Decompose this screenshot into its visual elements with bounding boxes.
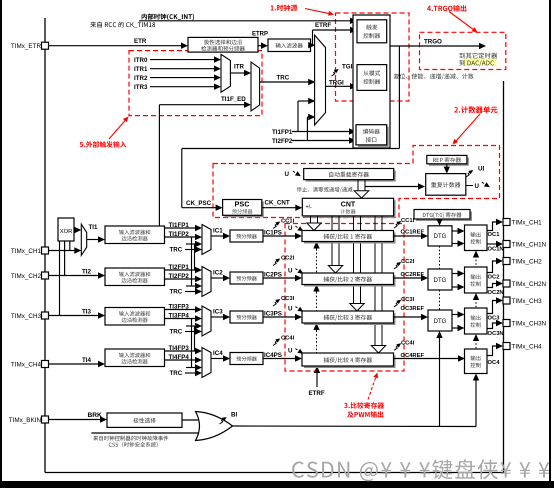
svg-text:TI1FP1: TI1FP1 (272, 129, 293, 136)
wires DTG2 to output control (452, 273, 459, 275)
controller outer box (353, 15, 390, 148)
diagram bottom border (45, 472, 504, 474)
svg-text:TRC: TRC (170, 289, 183, 296)
wire OC2N (487, 284, 498, 288)
input filter and edge detector box CH4 (105, 349, 165, 367)
DTG chain link 2-3 (439, 290, 441, 310)
output U of repetition counter (466, 185, 473, 187)
pin TIMx_CH1N (output) (503, 241, 510, 248)
wire ITR1 (150, 68, 216, 70)
svg-text:DTG: DTG (434, 278, 447, 284)
encoder interface box (358, 127, 389, 147)
input prescaler box CH2 (230, 272, 263, 284)
watermark CSDN (292, 459, 549, 481)
clock-source dashed box (region 1) (336, 13, 410, 101)
pin TIMx_CH3 (output) (503, 297, 510, 304)
svg-text:U: U (288, 348, 293, 355)
wire XOR to TI1 mux (74, 229, 76, 231)
wire OC3N (487, 323, 498, 329)
wire OC3 (487, 301, 498, 314)
svg-text:OC4: OC4 (488, 360, 501, 366)
svg-text:U: U (288, 268, 293, 275)
hollow arrow CNT to CCR4 (374, 216, 376, 346)
XOR input from CH3 (59, 241, 61, 316)
svg-text:TIMx_CH2: TIMx_CH2 (512, 259, 543, 266)
wire CSS fault (91, 432, 203, 434)
svg-text:U: U (285, 171, 290, 178)
svg-text:IC3: IC3 (213, 309, 223, 316)
label to other timers (459, 53, 497, 59)
wire TI1FP2 to IC2 mux (191, 237, 193, 286)
svg-text:CC1I: CC1I (281, 219, 295, 225)
svg-text:ITR2: ITR2 (134, 75, 148, 82)
slave mode controller box (357, 65, 387, 91)
pin TIMx_CH2N (output) (503, 280, 510, 287)
event arrow TGI (332, 70, 338, 76)
svg-text:CC4I: CC4I (401, 340, 415, 346)
preload link OC1-OC2 (475, 255, 477, 257)
input prescaler box CH1 (230, 230, 263, 242)
svg-text:CC3I: CC3I (281, 296, 295, 302)
trigger controller box (357, 20, 387, 43)
event arrow UI (466, 171, 472, 177)
svg-text:TRC: TRC (277, 75, 290, 82)
svg-text:ITR3: ITR3 (134, 84, 148, 91)
arrow REP to repetition counter (446, 164, 448, 168)
label to DAC/ADC (459, 60, 494, 66)
left bus (44, 18, 46, 473)
wire ITR2 (150, 77, 216, 79)
svg-text:ITR1: ITR1 (134, 66, 148, 73)
svg-text:BI: BI (231, 412, 237, 419)
svg-text:ETRF: ETRF (309, 390, 325, 397)
auto-reload register box (306, 171, 396, 182)
polarity select box (BRK) (107, 413, 182, 427)
external trigger dashed box (region 5) (129, 51, 262, 116)
svg-text:ETRP: ETRP (252, 32, 268, 38)
label CSS clock security system (109, 442, 158, 447)
label from RCC CK_TIM18 (90, 22, 155, 28)
preload link CCR1-CCR2 (316, 247, 318, 249)
svg-text:OC2: OC2 (488, 275, 500, 281)
svg-text:OC2N: OC2N (488, 290, 504, 296)
preload link CCR3-CCR4 (316, 329, 318, 331)
REP register box (429, 157, 469, 165)
XOR input from CH2 (64, 241, 66, 276)
mux TRGI select (315, 35, 326, 125)
svg-text:TGI: TGI (342, 64, 353, 71)
mux ITR select (221, 54, 230, 92)
svg-text:TIMx_CH4: TIMx_CH4 (11, 362, 42, 369)
label internal clock CK_INT (142, 14, 194, 21)
wire ITR0 (150, 59, 216, 61)
wire ETRF to TRGI mux (309, 44, 312, 46)
svg-text:TIMx_ETR: TIMx_ETR (11, 43, 42, 50)
svg-text:ETRF: ETRF (315, 22, 331, 29)
preload link OC2-OC3 (475, 298, 477, 300)
preload link OC3-OC4 (475, 339, 477, 341)
svg-text:TRC: TRC (170, 247, 183, 254)
counter CNT box (304, 200, 395, 218)
wire TI1 to filter (87, 239, 100, 241)
svg-text:OC3: OC3 (488, 316, 501, 322)
wire TI1FP1 branch to TRGI mux (297, 101, 299, 132)
left border (0, 0, 2, 488)
input filter and edge detector box CH2 (105, 268, 165, 286)
wires DTG1 to output control (452, 230, 459, 232)
annotation 2 counter unit (454, 106, 497, 113)
annotation 5 external trigger input (80, 141, 127, 147)
output control box 2 (465, 267, 488, 293)
svg-text:PSC: PSC (234, 200, 250, 209)
DTG register box (416, 212, 472, 222)
wire TI1F_ED (158, 105, 160, 226)
svg-text:CK_PSC: CK_PSC (186, 200, 212, 207)
wire ETRF to trigger controller (312, 30, 314, 45)
svg-text:TIMx_CH1N: TIMx_CH1N (512, 242, 547, 249)
output control box 3 (465, 308, 488, 334)
input filter box (ETR) (268, 39, 311, 52)
output control box 1 (465, 225, 488, 251)
annotation 1 clock source (271, 5, 298, 12)
OR gate (196, 412, 233, 441)
pin TIMx_CH2 (output) (503, 258, 510, 265)
svg-text:TIMx_CH3N: TIMx_CH3N (512, 321, 547, 328)
svg-text:TRC: TRC (170, 329, 183, 336)
svg-text:UI: UI (478, 166, 484, 173)
pin TIMx_CH3N (output) (503, 320, 510, 327)
wire TI2FP1 to IC1 mux (194, 244, 196, 270)
svg-text:DTG: DTG (434, 319, 447, 325)
wire BI to output controls (233, 425, 477, 428)
mux TI1 (81, 224, 86, 255)
XOR input from CH1 (69, 241, 71, 251)
label reset enable up/down count (394, 73, 474, 79)
svg-text:OC3REF: OC3REF (401, 306, 425, 312)
right border (549, 0, 551, 488)
input filter and edge detector box CH3 (105, 308, 165, 326)
capture/compare dashed box (region 3) (285, 224, 404, 372)
arrow DTG register to DTG1 (439, 219, 441, 220)
prescaler PSC box (225, 202, 264, 218)
wire TI3FP4 to IC4 mux (191, 319, 193, 368)
wire update to repetition counter (365, 186, 420, 188)
wire OC1 (487, 222, 498, 231)
wire OC4 (487, 346, 498, 356)
wire ITR3 (150, 86, 216, 88)
svg-text:TRC: TRC (170, 370, 183, 377)
wire ETRP (258, 45, 263, 47)
wire crossed input CH4 (186, 367, 197, 369)
svg-text:TI2FP2: TI2FP2 (272, 138, 293, 145)
svg-text:CNT: CNT (341, 201, 356, 208)
wire ETRF to CCR4 (316, 372, 318, 388)
svg-text:U: U (288, 306, 293, 313)
svg-text:OC3N: OC3N (488, 331, 504, 337)
svg-text:CC3I: CC3I (401, 297, 415, 303)
hollow arrow CNT to CCR3 (353, 216, 355, 304)
svg-text:IC1: IC1 (213, 228, 223, 235)
svg-text:TI1: TI1 (89, 224, 98, 231)
wire CK_INT to trigger controller (139, 20, 352, 22)
svg-text:TIMx_CH3: TIMx_CH3 (11, 313, 42, 320)
wire OC1N (487, 243, 498, 245)
yellow highlight DAC/ADC (463, 59, 497, 66)
svg-text:TI4: TI4 (82, 357, 91, 364)
event arrow BI (220, 418, 226, 424)
break signal to DTG3 (439, 337, 441, 427)
svg-text:OC1REF: OC1REF (401, 230, 425, 236)
repetition counter box (426, 174, 466, 196)
label clock failure event (93, 436, 168, 441)
bottom bar (0, 481, 554, 488)
input prescaler box CH3 (230, 311, 263, 323)
dead-time generator DTG2 box (428, 269, 452, 290)
annotation 3 compare registers / PWM output (344, 402, 384, 408)
capture/compare register 4 box (304, 355, 396, 368)
svg-text:IC4: IC4 (213, 350, 223, 357)
svg-text:TIMx_CH1: TIMx_CH1 (512, 220, 543, 227)
dead-time generator DTG1 box (428, 226, 452, 246)
wire CK_PSC (398, 46, 400, 149)
hollow arrow CNT to CCR2 (331, 216, 333, 266)
break signal to output control 4 (475, 379, 477, 427)
pin TIMx_CH1 (output) (503, 219, 510, 226)
svg-text:ITR0: ITR0 (134, 57, 148, 64)
right bus (503, 81, 505, 473)
svg-text:TI3: TI3 (82, 309, 91, 316)
mux IC1 (202, 225, 211, 255)
svg-text:TIMx_CH2: TIMx_CH2 (11, 273, 42, 280)
svg-text:U: U (288, 225, 293, 232)
TRGO output dashed box (region 4) (420, 32, 506, 69)
svg-text:TIMx_CH4: TIMx_CH4 (512, 344, 543, 351)
svg-text:ITR: ITR (234, 64, 244, 71)
hollow arrow ARR to CNT (357, 180, 359, 191)
svg-text:CC2I: CC2I (401, 259, 415, 265)
wire to OR gate (182, 419, 201, 421)
mux TRC select (251, 62, 260, 111)
svg-text:TI1F_ED: TI1F_ED (221, 96, 246, 103)
svg-text:OC2REF: OC2REF (401, 272, 425, 278)
mux IC4 (202, 348, 211, 378)
output control box 4 (465, 349, 488, 374)
svg-text:IC2: IC2 (213, 270, 223, 277)
wire crossed input CH3 (186, 325, 197, 327)
svg-text:XOR: XOR (60, 229, 73, 235)
svg-text:ETR: ETR (134, 38, 147, 45)
hollow arrow CNT to CCR1 (310, 216, 312, 223)
svg-text:TIMx_CH2N: TIMx_CH2N (512, 281, 547, 288)
svg-text:DTG: DTG (434, 234, 447, 240)
wire CH1 to TI1 mux (49, 250, 76, 252)
svg-text:OC1: OC1 (488, 232, 501, 238)
mux IC3 (202, 306, 211, 336)
annotation 4 TRGO output (427, 5, 466, 12)
svg-text:OC1N: OC1N (488, 247, 504, 253)
wire crossed input CH1 (186, 243, 197, 245)
wire OC2 (487, 261, 498, 273)
capture/compare register 1 box (304, 233, 396, 244)
svg-text:+/-: +/- (306, 204, 313, 210)
preload link CCR2-CCR3 (316, 290, 318, 292)
svg-text:TIMx_BKIN: TIMx_BKIN (9, 417, 42, 424)
DTG chain link 1-2 (439, 246, 441, 269)
svg-text:CC1I: CC1I (401, 218, 415, 224)
pin TIMx_CH4 (output) (503, 343, 510, 350)
svg-text:CK_CNT: CK_CNT (265, 200, 290, 207)
capture/compare register 2 box (304, 275, 396, 287)
wire crossed input CH2 (186, 285, 197, 287)
wire TI4FP3 to IC3 mux (194, 326, 196, 351)
wire TI2FP2 branch to TRGI mux (306, 117, 308, 141)
input filter and edge detector box CH1 (105, 226, 165, 244)
dead-time generator DTG3 box (428, 310, 452, 331)
svg-text:CC2I: CC2I (281, 256, 295, 262)
wires DTG3 to output control (452, 314, 459, 316)
XOR box (58, 218, 74, 241)
svg-text:TRGI: TRGI (329, 80, 344, 87)
polarity select / edge detector / prescaler box (188, 37, 258, 52)
input prescaler box CH4 (230, 353, 263, 365)
svg-text:TIMx_CH1: TIMx_CH1 (11, 248, 42, 255)
svg-text:U: U (475, 183, 480, 190)
svg-text:TI2: TI2 (82, 269, 91, 276)
svg-text:TIMx_CH3: TIMx_CH3 (512, 298, 543, 305)
counter unit dashed outline (region 2) (213, 146, 500, 218)
svg-text:TRGO: TRGO (424, 39, 442, 46)
svg-text:BRK: BRK (88, 412, 103, 419)
capture/compare register 3 box (304, 313, 396, 325)
mux IC2 (202, 267, 211, 297)
label stop clear up/down (297, 187, 353, 193)
svg-text:CC4I: CC4I (281, 336, 295, 342)
